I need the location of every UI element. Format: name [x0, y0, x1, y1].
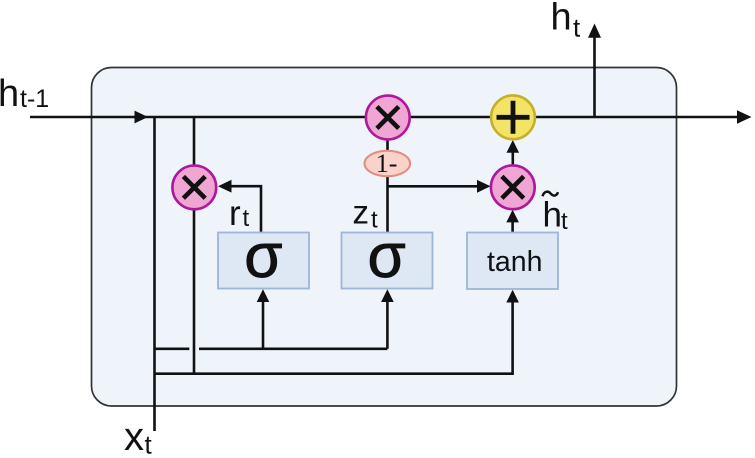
svg-text:r: r — [229, 194, 241, 233]
svg-text:1-: 1- — [376, 149, 398, 178]
wire: vertical branch 2 through reset multiply — [193, 117, 196, 374]
arrowhead: into candidate multiply left — [477, 180, 491, 193]
svg-text:h: h — [543, 196, 562, 235]
arrowhead: main line output right — [737, 110, 752, 124]
svg-text:σ: σ — [244, 222, 282, 291]
svg-text:t: t — [573, 13, 581, 43]
multiply node: candidate (right x circle) — [491, 165, 535, 209]
arrowhead: into sigma-z bottom — [381, 289, 394, 302]
arrowhead: into tanh bottom — [506, 290, 519, 303]
wire: feed up into sigma-r — [262, 301, 265, 349]
arrowhead: into candidate multiply bottom — [506, 210, 519, 223]
svg-text:t: t — [561, 208, 568, 235]
plus node: output sum (yellow circle) — [491, 95, 535, 139]
node: 1-minus ellipse — [365, 151, 411, 176]
arrowhead: into reset multiply right — [218, 180, 232, 193]
wire: bottom horizontal 2 (reset output to tanh) — [155, 302, 513, 374]
svg-text:t: t — [243, 205, 250, 232]
svg-text:x: x — [124, 415, 144, 458]
wire: vertical branch 1 (x_t / h concat line) — [153, 117, 156, 431]
wire: feed up into sigma-z — [386, 301, 389, 349]
arrowhead: into plus bottom — [507, 140, 520, 153]
svg-text:h: h — [0, 73, 19, 115]
box: sigma-r gate — [218, 233, 309, 289]
svg-text:tanh: tanh — [487, 246, 542, 278]
svg-text:t: t — [371, 206, 378, 233]
svg-text:t-1: t-1 — [20, 85, 49, 113]
svg-text:z: z — [353, 194, 370, 231]
wire: z_t branch right to candidate multiply — [388, 185, 479, 188]
arrowhead: into sigma-r bottom — [257, 289, 270, 302]
box: tanh — [467, 233, 558, 290]
wire: main h(t-1) horizontal line — [30, 116, 738, 119]
wire: z_t from sigma-z top up to update multiply — [386, 140, 389, 232]
GRU cell body — [92, 68, 677, 407]
svg-text:h: h — [551, 0, 572, 39]
box: sigma-z gate — [342, 233, 433, 289]
arrowhead: main line direction after entering box — [135, 111, 149, 124]
wire: candidate multiply up to plus — [511, 153, 514, 166]
wire: r_t from sigma-r top to reset multiply — [231, 186, 261, 232]
arrowhead: h_t output tip — [588, 24, 601, 38]
multiply node: update gate (top middle x circle) — [366, 96, 410, 140]
svg-text:t: t — [145, 430, 153, 458]
wire: h_t output up — [593, 37, 596, 117]
wire: bottom horizontal 1 (x feed, hops over branch 2) — [155, 347, 190, 350]
multiply node: reset gate (left x circle) — [172, 166, 216, 210]
wire: tanh top to candidate multiply — [511, 222, 514, 233]
